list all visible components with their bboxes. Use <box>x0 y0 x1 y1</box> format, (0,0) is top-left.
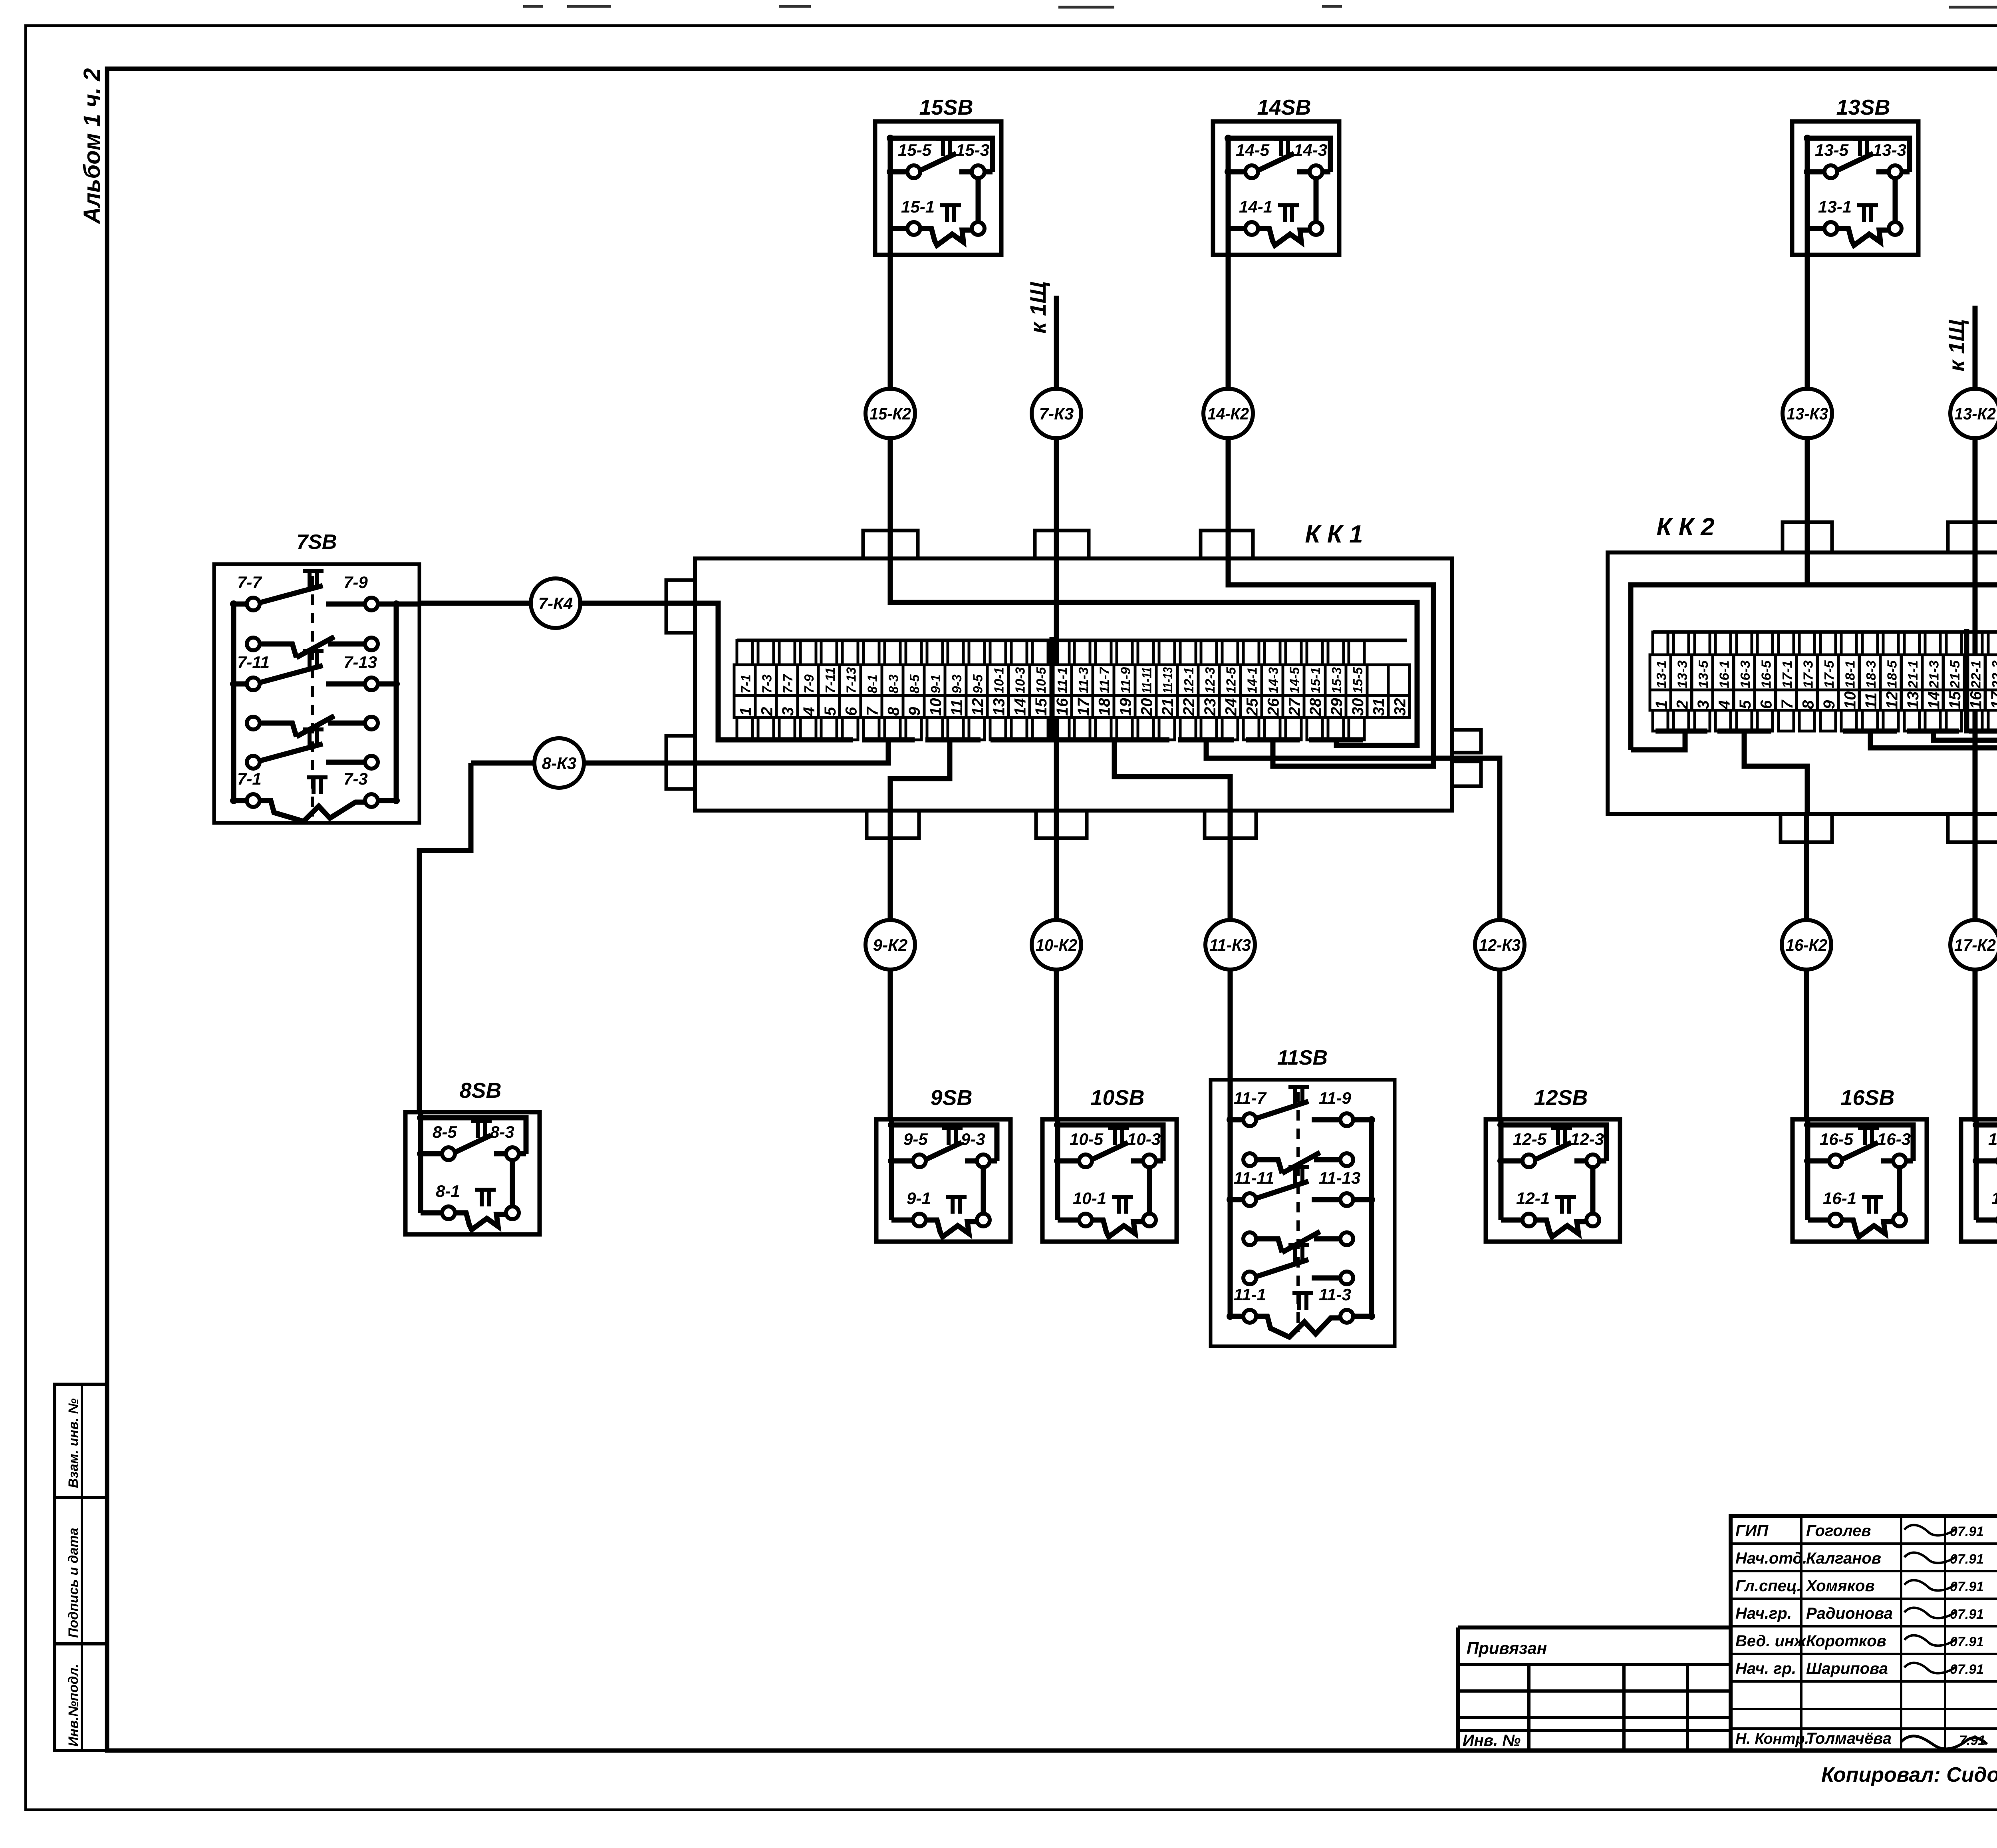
svg-text:7-К3: 7-К3 <box>1039 404 1074 423</box>
svg-text:14-5: 14-5 <box>1287 667 1302 693</box>
svg-text:13-К3: 13-К3 <box>1787 404 1828 423</box>
svg-text:15-3: 15-3 <box>1329 667 1344 693</box>
KK2 terminal strip <box>1650 655 1997 710</box>
svg-text:13-1: 13-1 <box>1654 660 1669 688</box>
svg-text:14SB: 14SB <box>1257 95 1311 119</box>
svg-text:9-К2: 9-К2 <box>873 936 908 954</box>
svg-text:13-К2: 13-К2 <box>1954 404 1996 423</box>
svg-text:10-1: 10-1 <box>992 667 1006 693</box>
svg-text:11-13: 11-13 <box>1160 667 1175 693</box>
cable marker 10-К2 <box>1032 920 1081 970</box>
svg-text:12-1: 12-1 <box>1181 667 1196 693</box>
svg-text:7: 7 <box>864 706 881 716</box>
svg-text:13-3: 13-3 <box>1873 141 1906 159</box>
svg-text:11-13: 11-13 <box>1319 1168 1360 1187</box>
svg-text:7-1: 7-1 <box>738 674 753 693</box>
svg-text:ГИП: ГИП <box>1735 1522 1769 1540</box>
svg-text:16-1: 16-1 <box>1823 1189 1856 1208</box>
svg-text:17-5: 17-5 <box>1822 660 1836 688</box>
svg-text:3: 3 <box>779 707 797 716</box>
svg-text:К К 2: К К 2 <box>1656 513 1714 541</box>
svg-text:07.91: 07.91 <box>1950 1634 1984 1649</box>
svg-text:7-3: 7-3 <box>343 769 368 788</box>
svg-text:17-3: 17-3 <box>1801 660 1816 688</box>
svg-text:21-5: 21-5 <box>1947 660 1962 689</box>
svg-text:2: 2 <box>1674 700 1691 709</box>
svg-text:1: 1 <box>1653 700 1670 709</box>
svg-text:15: 15 <box>1946 691 1964 709</box>
KK1 lower join lines <box>718 737 853 743</box>
svg-text:13-5: 13-5 <box>1815 141 1849 159</box>
pushbutton 15SB <box>875 95 1001 255</box>
svg-text:15-К2: 15-К2 <box>869 404 911 423</box>
svg-text:32: 32 <box>1391 698 1409 716</box>
KK1 wire terminals 22-24 to 12-K3 exit <box>1206 740 1426 758</box>
svg-text:Шарипова: Шарипова <box>1806 1660 1888 1677</box>
wire k 1Shch / 13-K2 through KK2 to 17SB <box>1973 306 1978 1122</box>
svg-text:7-7: 7-7 <box>780 674 795 693</box>
svg-text:14-1: 14-1 <box>1239 197 1272 216</box>
svg-text:16-3: 16-3 <box>1877 1130 1911 1149</box>
pushbutton 17SB <box>1961 1086 1997 1242</box>
svg-text:Гоголев: Гоголев <box>1806 1522 1871 1540</box>
svg-text:15-5: 15-5 <box>1350 667 1365 693</box>
svg-text:12: 12 <box>1883 692 1901 709</box>
svg-text:13-3: 13-3 <box>1675 660 1690 688</box>
svg-text:7-7: 7-7 <box>237 573 262 592</box>
pushbutton 7SB (4-gang) <box>214 531 419 823</box>
svg-text:17-К2: 17-К2 <box>1954 936 1996 954</box>
KK1 right tabs <box>1452 730 1481 753</box>
svg-text:11: 11 <box>948 699 966 716</box>
svg-text:11SB: 11SB <box>1277 1046 1328 1069</box>
svg-text:7-13: 7-13 <box>343 653 377 672</box>
wire k 1Shch / 7-K3 through KK1 to 10SB <box>1054 296 1059 1119</box>
svg-text:8-К3: 8-К3 <box>542 754 577 773</box>
wire 8-K3 down to 8SB <box>419 763 471 1112</box>
svg-text:7-К4: 7-К4 <box>538 594 573 613</box>
KK1 terminal strip <box>734 665 1409 717</box>
svg-text:К К 1: К К 1 <box>1305 521 1363 548</box>
cable marker 15-К2 <box>865 389 915 438</box>
KK1 wire terminals 10-12 to 9-K2 <box>890 740 950 811</box>
wire KK2 to 16-K2 to 16SB <box>1804 814 1809 1121</box>
svg-text:10-5: 10-5 <box>1034 667 1048 693</box>
svg-text:17-1: 17-1 <box>1780 660 1795 688</box>
svg-text:07.91: 07.91 <box>1950 1607 1984 1622</box>
svg-text:10: 10 <box>1841 692 1859 709</box>
KK1 wire loop 15-K2 to terminals 28-30 <box>890 558 1417 745</box>
svg-text:7-9: 7-9 <box>802 674 816 693</box>
svg-text:8-3: 8-3 <box>490 1123 514 1141</box>
svg-text:Инв. №: Инв. № <box>1463 1732 1521 1749</box>
svg-text:15SB: 15SB <box>919 95 973 119</box>
cable marker 9-К2 <box>865 920 915 970</box>
svg-text:9: 9 <box>1820 700 1838 709</box>
svg-text:7-9: 7-9 <box>343 573 368 592</box>
svg-text:Альбом 1 ч. 2: Альбом 1 ч. 2 <box>79 68 105 225</box>
svg-text:5: 5 <box>822 707 839 716</box>
cable marker 16-К2 <box>1782 920 1831 970</box>
KK1 wire loop 14-K2 to terminals 25-27 <box>1228 558 1433 766</box>
svg-text:9-3: 9-3 <box>961 1130 985 1149</box>
cable marker 11-К3 <box>1205 920 1255 970</box>
wire 7SB to KK1 (7-K4) <box>419 601 695 606</box>
svg-text:Взам. инв. №: Взам. инв. № <box>66 1398 81 1488</box>
svg-text:27: 27 <box>1286 697 1303 716</box>
svg-text:7: 7 <box>1779 699 1796 709</box>
cable marker 12-К3 <box>1475 920 1525 970</box>
connector block KK2 <box>1608 552 1997 814</box>
cable marker 17-К2 <box>1950 920 1997 970</box>
svg-text:8-1: 8-1 <box>865 674 879 693</box>
svg-text:11-7: 11-7 <box>1097 666 1112 693</box>
svg-text:14-К2: 14-К2 <box>1207 404 1249 423</box>
svg-text:Нач. гр.: Нач. гр. <box>1735 1660 1796 1677</box>
svg-text:9-1: 9-1 <box>907 1189 931 1208</box>
svg-text:07.91: 07.91 <box>1950 1579 1984 1594</box>
svg-text:Толмачёва: Толмачёва <box>1806 1730 1892 1747</box>
cable marker 13-К3 <box>1783 389 1832 438</box>
cable marker 8-К3 <box>534 738 584 788</box>
svg-text:Привязан: Привязан <box>1467 1639 1547 1657</box>
svg-text:7-11: 7-11 <box>823 667 838 693</box>
svg-text:11-3: 11-3 <box>1076 667 1091 693</box>
svg-text:12: 12 <box>969 698 987 716</box>
svg-text:17-1: 17-1 <box>1991 1189 1997 1208</box>
svg-text:2: 2 <box>758 707 776 716</box>
pushbutton 16SB <box>1793 1086 1927 1242</box>
svg-text:Гл.спец.: Гл.спец. <box>1735 1577 1801 1595</box>
svg-text:11-К3: 11-К3 <box>1209 936 1251 954</box>
svg-text:25: 25 <box>1244 698 1261 716</box>
svg-text:11: 11 <box>1862 692 1880 709</box>
svg-text:16SB: 16SB <box>1840 1086 1894 1110</box>
KK2 top tabs <box>1783 522 1832 552</box>
pushbutton 13SB <box>1792 95 1918 255</box>
svg-text:16-1: 16-1 <box>1717 660 1732 688</box>
connector block KK1 <box>695 558 1452 811</box>
svg-text:Нач.отд.: Нач.отд. <box>1735 1550 1807 1567</box>
svg-text:30: 30 <box>1349 698 1367 716</box>
svg-text:10-3: 10-3 <box>1012 667 1027 693</box>
svg-text:20: 20 <box>1138 698 1155 717</box>
wire KK1 to 9-K2 to 9SB <box>888 811 893 1119</box>
svg-text:10: 10 <box>927 698 945 716</box>
svg-text:16-3: 16-3 <box>1738 660 1753 688</box>
svg-text:31: 31 <box>1370 698 1388 716</box>
svg-text:7SB: 7SB <box>296 531 337 554</box>
svg-text:9SB: 9SB <box>930 1086 972 1110</box>
KK2 inner wire loop 13-K3 / 22-K3 <box>1805 552 1810 585</box>
svg-text:18-5: 18-5 <box>1884 660 1899 688</box>
svg-text:5: 5 <box>1737 700 1754 709</box>
svg-text:к 1Щ: к 1Щ <box>1025 282 1050 334</box>
svg-text:9-3: 9-3 <box>949 674 964 693</box>
copied-by line <box>1821 1758 1997 1791</box>
svg-text:11-11: 11-11 <box>1234 1168 1274 1187</box>
pushbutton 12SB <box>1486 1086 1620 1242</box>
svg-text:Коротков: Коротков <box>1806 1632 1886 1650</box>
KK1 left tabs <box>666 580 695 633</box>
svg-text:Вед. инж.: Вед. инж. <box>1735 1632 1810 1650</box>
svg-text:Подпись и дата: Подпись и дата <box>66 1528 81 1638</box>
pushbutton 14SB <box>1213 95 1339 255</box>
svg-text:8-1: 8-1 <box>436 1182 460 1200</box>
svg-text:16-5: 16-5 <box>1759 660 1774 688</box>
svg-text:12-3: 12-3 <box>1570 1130 1604 1149</box>
svg-text:16: 16 <box>1054 698 1071 716</box>
svg-text:22-3: 22-3 <box>1989 660 1997 689</box>
KK1 wire 8-K3 to terminals 7-9 <box>695 740 888 763</box>
svg-text:10-3: 10-3 <box>1127 1130 1161 1149</box>
svg-text:7-11: 7-11 <box>237 653 270 672</box>
KK2 wire terminals 10-12 to 18-K2 <box>1870 731 1997 814</box>
scan noise top edge <box>523 6 1997 7</box>
svg-text:15-1: 15-1 <box>901 197 935 216</box>
svg-text:17-5: 17-5 <box>1988 1130 1997 1149</box>
KK1 upper pin combs <box>737 640 1364 665</box>
KK2 lower join lines <box>1656 729 1707 734</box>
7SB exit wire to 7-K4 <box>396 602 419 607</box>
KK1 wire terminals 16-21 to 11-K3 <box>1114 740 1230 811</box>
svg-text:4: 4 <box>800 707 818 716</box>
svg-text:22: 22 <box>1180 698 1198 717</box>
svg-text:15-1: 15-1 <box>1308 667 1323 693</box>
svg-text:10-1: 10-1 <box>1073 1189 1106 1208</box>
svg-text:10-5: 10-5 <box>1070 1130 1104 1149</box>
svg-text:9-5: 9-5 <box>971 674 985 693</box>
svg-text:Копировал: Сидорова: Копировал: Сидорова <box>1821 1763 1997 1786</box>
title block <box>1458 1516 1997 1751</box>
svg-text:7.91: 7.91 <box>1959 1733 1985 1748</box>
cable marker 7-К4 <box>531 578 580 628</box>
svg-text:8SB: 8SB <box>459 1079 501 1103</box>
svg-text:12-1: 12-1 <box>1516 1189 1550 1208</box>
svg-text:9-5: 9-5 <box>903 1130 928 1149</box>
svg-text:21-3: 21-3 <box>1926 660 1941 689</box>
svg-text:14-3: 14-3 <box>1266 667 1280 693</box>
KK2 upper pin combs <box>1653 632 1997 655</box>
svg-text:11-9: 11-9 <box>1319 1089 1352 1107</box>
svg-text:12-5: 12-5 <box>1224 667 1239 693</box>
KK1 top tabs <box>863 531 918 558</box>
svg-text:8: 8 <box>885 707 902 716</box>
svg-text:07.91: 07.91 <box>1950 1552 1984 1567</box>
svg-text:8-5: 8-5 <box>907 674 922 693</box>
svg-text:14-5: 14-5 <box>1236 141 1270 159</box>
pushbutton 11SB (4-gang) <box>1211 1046 1395 1346</box>
svg-text:7-3: 7-3 <box>759 674 774 693</box>
svg-text:Н. Контр.: Н. Контр. <box>1735 1731 1809 1747</box>
svg-text:10SB: 10SB <box>1090 1086 1144 1110</box>
svg-text:24: 24 <box>1223 698 1240 717</box>
svg-text:07.91: 07.91 <box>1950 1662 1984 1677</box>
svg-text:6: 6 <box>1758 700 1775 709</box>
svg-text:Калганов: Калганов <box>1806 1550 1881 1567</box>
KK2 wire terminals 4-6 to 16-K2 <box>1744 731 1807 814</box>
KK2 bottom tabs <box>1781 814 1832 842</box>
svg-text:13-1: 13-1 <box>1818 197 1852 216</box>
svg-text:15-3: 15-3 <box>956 141 989 159</box>
svg-text:Радионова: Радионова <box>1806 1605 1893 1622</box>
svg-text:6: 6 <box>843 707 860 716</box>
KK1 lower pin combs <box>737 717 1364 740</box>
svg-text:12-К3: 12-К3 <box>1479 936 1521 954</box>
svg-text:9: 9 <box>906 707 923 716</box>
svg-text:12-3: 12-3 <box>1203 667 1217 693</box>
wire 8-K3 horizontal to KK1 <box>471 761 695 766</box>
wire 15SB to KK1 tab <box>888 255 893 558</box>
svg-text:22-1: 22-1 <box>1968 660 1983 689</box>
svg-text:14: 14 <box>1011 698 1029 716</box>
svg-text:13SB: 13SB <box>1836 95 1890 119</box>
svg-text:3: 3 <box>1695 700 1712 709</box>
svg-text:к 1Щ: к 1Щ <box>1944 320 1969 372</box>
pass-through wire over KK1 strip <box>1050 637 1055 742</box>
svg-text:Нач.гр.: Нач.гр. <box>1735 1605 1792 1622</box>
svg-text:17: 17 <box>1075 697 1092 716</box>
svg-text:16: 16 <box>1967 691 1985 709</box>
svg-text:14-3: 14-3 <box>1294 141 1327 159</box>
svg-text:19: 19 <box>1117 698 1135 716</box>
pushbutton 9SB <box>876 1086 1010 1242</box>
svg-text:13: 13 <box>1904 692 1922 709</box>
svg-text:23: 23 <box>1201 698 1219 717</box>
KK1 bottom tabs <box>867 811 919 838</box>
svg-text:16-5: 16-5 <box>1820 1130 1854 1149</box>
svg-text:14: 14 <box>1925 692 1943 709</box>
svg-text:Хомяков: Хомяков <box>1805 1577 1875 1595</box>
svg-text:18-3: 18-3 <box>1864 660 1878 688</box>
svg-text:18-1: 18-1 <box>1842 660 1857 688</box>
svg-text:11-7: 11-7 <box>1234 1089 1267 1107</box>
svg-text:11-1: 11-1 <box>1234 1285 1266 1304</box>
KK2 wire terminals 13-15 to 21-K3 exit <box>1933 731 1997 764</box>
svg-text:28: 28 <box>1307 698 1324 716</box>
cable marker 13-К2 <box>1950 389 1997 438</box>
wire KK1 right exit to 12-K3 to 12SB <box>1426 758 1500 1119</box>
svg-text:21-1: 21-1 <box>1906 660 1920 689</box>
svg-text:15: 15 <box>1032 698 1050 716</box>
svg-text:14-1: 14-1 <box>1245 667 1260 693</box>
svg-text:18: 18 <box>1096 698 1114 716</box>
svg-text:9-1: 9-1 <box>928 674 943 693</box>
wire 13SB to KK2 tab <box>1805 255 1810 552</box>
wire 14SB to KK1 tab <box>1226 255 1231 558</box>
svg-text:7-13: 7-13 <box>844 667 859 693</box>
svg-text:12SB: 12SB <box>1534 1086 1588 1110</box>
svg-text:26: 26 <box>1265 698 1282 716</box>
svg-text:8: 8 <box>1800 700 1817 709</box>
pass-through wire over KK2 strip <box>1964 629 1969 733</box>
svg-text:11-9: 11-9 <box>1118 667 1133 693</box>
svg-text:10-К2: 10-К2 <box>1036 936 1077 954</box>
svg-text:Инв.№подл.: Инв.№подл. <box>66 1664 81 1747</box>
KK1 wire 7-K4 to terminals 1-6 <box>695 603 853 740</box>
svg-text:8-5: 8-5 <box>433 1123 457 1141</box>
svg-text:11-1: 11-1 <box>1055 667 1070 693</box>
svg-text:07.91: 07.91 <box>1950 1524 1984 1539</box>
svg-text:11-11: 11-11 <box>1139 667 1154 693</box>
svg-text:13-5: 13-5 <box>1696 660 1711 688</box>
svg-text:1: 1 <box>737 707 754 716</box>
pushbutton 10SB <box>1042 1086 1177 1242</box>
svg-text:15-5: 15-5 <box>898 141 932 159</box>
svg-text:21: 21 <box>1159 698 1177 717</box>
KK2 lower pin combs <box>1653 710 1997 731</box>
svg-text:16-К2: 16-К2 <box>1786 936 1827 954</box>
KK1 comb top bus line <box>737 639 1407 642</box>
svg-text:11-3: 11-3 <box>1319 1285 1351 1304</box>
left stamp column <box>55 1384 107 1751</box>
svg-text:17: 17 <box>1988 691 1997 709</box>
svg-text:29: 29 <box>1328 698 1346 716</box>
svg-text:4: 4 <box>1716 700 1733 709</box>
pushbutton 8SB <box>405 1079 540 1234</box>
svg-text:12-5: 12-5 <box>1513 1130 1547 1149</box>
KK2 comb top bus line <box>1653 630 1997 634</box>
svg-text:8-3: 8-3 <box>886 674 901 693</box>
cable marker 14-К2 <box>1203 389 1253 438</box>
svg-text:7-1: 7-1 <box>237 769 262 788</box>
wire KK1 to 11-K3 to 11SB <box>1228 811 1233 1080</box>
cable marker 7-К3 <box>1032 389 1081 438</box>
svg-text:13: 13 <box>991 698 1008 716</box>
